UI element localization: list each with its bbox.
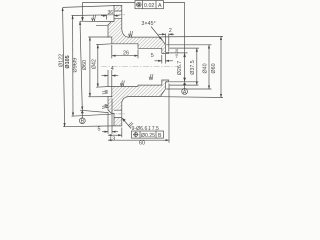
svg-text:Ø60: Ø60 [211,63,217,73]
dim 60 line [108,139,169,141]
chamfer leader [151,27,162,41]
dim phi122 extension lines [63,6,114,127]
svg-text:Ø40: Ø40 [202,63,208,73]
bolt hole lower outline [114,110,122,117]
position FCF box [132,131,164,138]
bolt hole upper centerline [111,14,125,16]
svg-text:60: 60 [139,141,145,146]
runout FCF box [135,1,164,9]
dim 5 bottom right tail [112,131,118,133]
dim phi42 extension lines [96,44,112,87]
dim 5 bore right tail [166,60,173,62]
right ext line phi37.5 top [169,47,199,49]
svg-text:2: 2 [169,28,172,34]
finish mark on bolt hole leader [128,122,133,126]
runout FCF symbol [137,2,142,7]
dim 4 left tail [102,75,109,77]
right ext line phi60 bottom [161,96,223,99]
svg-text:3×45°: 3×45° [141,21,155,27]
svg-text:Ø26.7: Ø26.7 [177,61,183,75]
dim phi96f9 extension lines [80,21,111,112]
svg-text:4: 4 [111,66,114,72]
hatch lower half section [108,80,169,126]
dim 60 extension line right [168,84,170,143]
datum A circle [182,89,188,95]
dim 4 extension ticks [108,70,112,87]
datum B circle [79,118,85,124]
surface finish mark on phi26.7 bore bottom [149,74,153,80]
part outline lower half [108,80,169,126]
svg-text:A: A [183,89,187,95]
surface finish mark on phi60 boss [129,31,133,37]
bolt hole upper (white band) [114,11,122,19]
runout FCF cell dividers [143,1,157,9]
dim 2 right tail [169,33,174,35]
centerline (part axis) [101,66,177,68]
right ext line phi26.7 top (ledge) [169,52,187,54]
svg-text:0.02: 0.02 [144,3,154,9]
dim 36 hub left extension tick [106,15,108,20]
runout FCF left leader arrow [81,17,84,21]
svg-text:+0.28: +0.28 [175,49,179,58]
surface finish mark on phi42 bore bottom [120,80,124,86]
svg-text:5: 5 [151,53,154,59]
rotated surface finish mark on left face lower [102,104,108,108]
datum B triangle [81,110,84,113]
dim 13 extension line right [121,128,123,138]
dim 2 left tail [159,33,166,35]
dim 4 right tail [112,75,119,77]
svg-text:Ø0.25: Ø0.25 [141,133,155,139]
svg-text:Ø105: Ø105 [65,55,71,68]
dim phi96f9 line [80,21,82,110]
dim phi60 right line [220,36,222,97]
svg-text:Ø96f9: Ø96f9 [72,58,78,73]
dim phi122 line [63,7,65,126]
surface finish mark on phi96 hub [92,15,96,21]
dim phi42 line [97,45,99,88]
position FCF cell dividers [140,131,156,138]
runout FCF left leader [83,3,136,21]
position FCF symbol [133,132,138,137]
right ext line phi40 top [166,44,211,46]
svg-text:Ø122: Ø122 [59,54,65,67]
runout FCF right leader merging into phi26.7 dim line [164,3,185,82]
dim phi105 line [72,16,74,117]
part outline upper half [108,5,169,53]
svg-text:Ø60: Ø60 [82,60,88,70]
hatch upper half section [108,5,169,53]
bolt holes label leader arrow [122,118,126,122]
dim 5 bore left tail [155,60,162,62]
bolt hole upper outline [114,11,122,19]
svg-text:B: B [81,119,85,125]
right ext line phi37.5 bottom [169,84,198,86]
ext line at chamfer corner [96,24,108,27]
dim 36 right tail [114,15,120,17]
datum A stem [184,85,186,89]
dim phi60 left extension lines [88,37,108,97]
right ext line phi40 bottom [166,88,211,90]
svg-text:5: 5 [98,127,101,133]
rotated surface finish mark on counterbore face [102,90,108,94]
dim 36 left tail [101,15,107,17]
dim phi26.7 arrows on leader line [183,53,186,82]
dim phi40 line [208,45,210,89]
bolt hole lower centerline [111,113,125,115]
dim phi37.5 line [196,48,198,85]
svg-text:Ø37.5: Ø37.5 [190,60,196,74]
right ext line phi26.7 bottom (ledge) [169,81,198,83]
dim 26 line [112,55,138,57]
svg-text:36: 36 [108,10,114,16]
svg-text:13: 13 [109,137,115,143]
svg-text:A: A [158,3,162,9]
dim 5 bore step extension ticks [162,54,166,64]
bolt hole lower (white band) [114,110,122,117]
bolt holes label leader [123,119,132,129]
datum B stem [81,110,83,118]
dim phi105 extension lines [72,15,112,116]
dim 13 line [108,134,122,136]
svg-text:26: 26 [123,51,129,57]
dim 26 extension lines [112,45,138,58]
dim 5 bottom left tail [102,131,108,133]
svg-text:B: B [158,133,162,139]
dim 5 bottom extension lines [108,99,112,134]
dim phi60 left line [89,37,91,97]
dim 2 collar extension ticks [166,34,169,52]
datum A triangle [183,82,186,85]
svg-text:Ø42: Ø42 [91,59,97,69]
right ext line phi60 top [161,35,223,38]
